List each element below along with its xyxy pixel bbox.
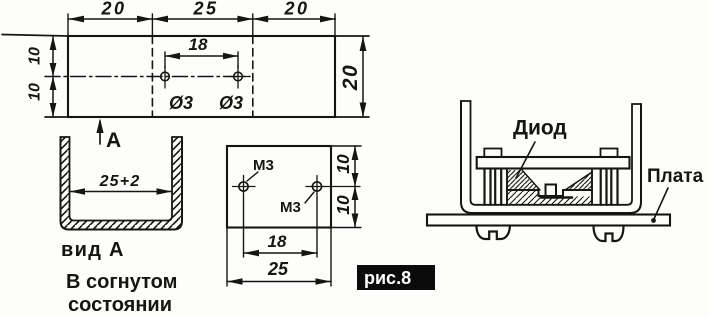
- right dim 10/10: [331, 146, 361, 228]
- arrow right end of 20: [320, 16, 335, 23]
- channel wall top caps: [61, 136, 183, 138]
- svg-text:М3: М3: [253, 157, 274, 174]
- arrow left end of 20: [69, 16, 85, 23]
- svg-text:В согнутом: В согнутом: [66, 271, 177, 293]
- mounting screw head left (below board): [477, 226, 510, 239]
- bottom edge extension right: [335, 116, 369, 118]
- svg-text:18: 18: [189, 35, 208, 54]
- hole right vertical tick: [237, 66, 239, 88]
- svg-text:10: 10: [333, 195, 353, 215]
- hole right Ø3: [234, 72, 243, 81]
- left vertical dim 10/10: [52, 36, 54, 117]
- svg-text:состоянии: состоянии: [68, 294, 172, 316]
- bend line left (dashed): [151, 36, 153, 117]
- diode left mound slope: [522, 170, 540, 190]
- extension at bend line 2: [252, 14, 254, 36]
- dim 18 between holes (top view): [165, 52, 238, 68]
- bolt head left: [484, 149, 501, 158]
- diode stud nut: [546, 185, 557, 197]
- top edge extension line to left page edge: [2, 35, 68, 37]
- svg-text:Ø3: Ø3: [169, 93, 193, 113]
- plate outline: [227, 146, 331, 228]
- extension line at x=68 above plate: [67, 14, 69, 36]
- svg-text:A: A: [106, 129, 121, 152]
- bolt shaft left (threaded): [485, 169, 502, 205]
- top edge extension right: [335, 35, 369, 37]
- svg-text:10: 10: [333, 154, 353, 174]
- hole left Ø3: [161, 72, 170, 81]
- clamp bar: [477, 157, 630, 169]
- svg-text:20: 20: [339, 64, 362, 91]
- bottom dim 25: [227, 228, 331, 287]
- svg-text:18: 18: [268, 232, 287, 251]
- horizontal center line (dash-dot): [45, 76, 250, 78]
- diode bottom section hatch: [507, 190, 592, 205]
- bracket inner outline: [471, 101, 633, 205]
- channel inner outline: [70, 137, 173, 221]
- board (Плата): [427, 215, 670, 226]
- diode right mound hatch: [565, 172, 592, 190]
- svg-text:25: 25: [192, 0, 218, 19]
- hole right horizontal tick extending to right dim: [306, 186, 360, 188]
- bend line right (dashed): [252, 36, 254, 117]
- svg-text:рис.8: рис.8: [364, 268, 411, 288]
- diode right mound slope: [565, 172, 592, 190]
- svg-text:10: 10: [27, 47, 44, 65]
- diode enclosure left wall: [506, 170, 508, 205]
- bracket wall top caps: [461, 101, 641, 104]
- channel outer outline: [61, 137, 183, 230]
- arrows meeting at bend 2: [237, 16, 252, 23]
- bottom edge extension left: [45, 116, 68, 118]
- svg-text:Плата: Плата: [647, 166, 704, 187]
- mounting screw head right (below board): [594, 226, 624, 241]
- hole right horizontal tick: [228, 76, 249, 78]
- hole left vertical tick: [164, 66, 166, 88]
- extension at x=335: [334, 14, 336, 36]
- diode left mound hatch: [507, 170, 540, 190]
- top dimension line 20|25|20: [69, 18, 336, 20]
- dim 25+2: [70, 191, 173, 193]
- svg-text:М3: М3: [280, 199, 301, 216]
- bracket outer outline (left wall, bottom, right wall): [461, 101, 641, 213]
- diode enclosure right wall: [591, 170, 593, 205]
- bolt head right: [601, 149, 618, 158]
- diode nut base thick line: [541, 196, 572, 199]
- svg-text:20: 20: [283, 0, 309, 19]
- plate outline (flat development): [68, 36, 335, 117]
- channel section hatch: [61, 137, 183, 230]
- svg-text:Ø3: Ø3: [219, 93, 243, 113]
- arrows meeting at bend 1: [137, 16, 152, 23]
- hole M3 right: [312, 182, 321, 191]
- svg-text:25+2: 25+2: [99, 173, 141, 190]
- svg-text:вид А: вид А: [61, 239, 125, 261]
- extension at bend line 1: [151, 14, 153, 36]
- bolt shaft right (threaded): [601, 169, 618, 205]
- diode flange stepped profile: [507, 185, 592, 197]
- hole M3 left: [239, 182, 248, 191]
- view direction arrow A: [99, 121, 101, 144]
- svg-text:Диод: Диод: [513, 117, 567, 140]
- right vertical dim 20: [362, 37, 364, 118]
- svg-text:20: 20: [100, 0, 126, 19]
- svg-text:25: 25: [267, 259, 289, 279]
- figure label box рис.8: [357, 265, 435, 290]
- svg-text:10: 10: [27, 83, 44, 101]
- bottom dim 18: [244, 198, 318, 257]
